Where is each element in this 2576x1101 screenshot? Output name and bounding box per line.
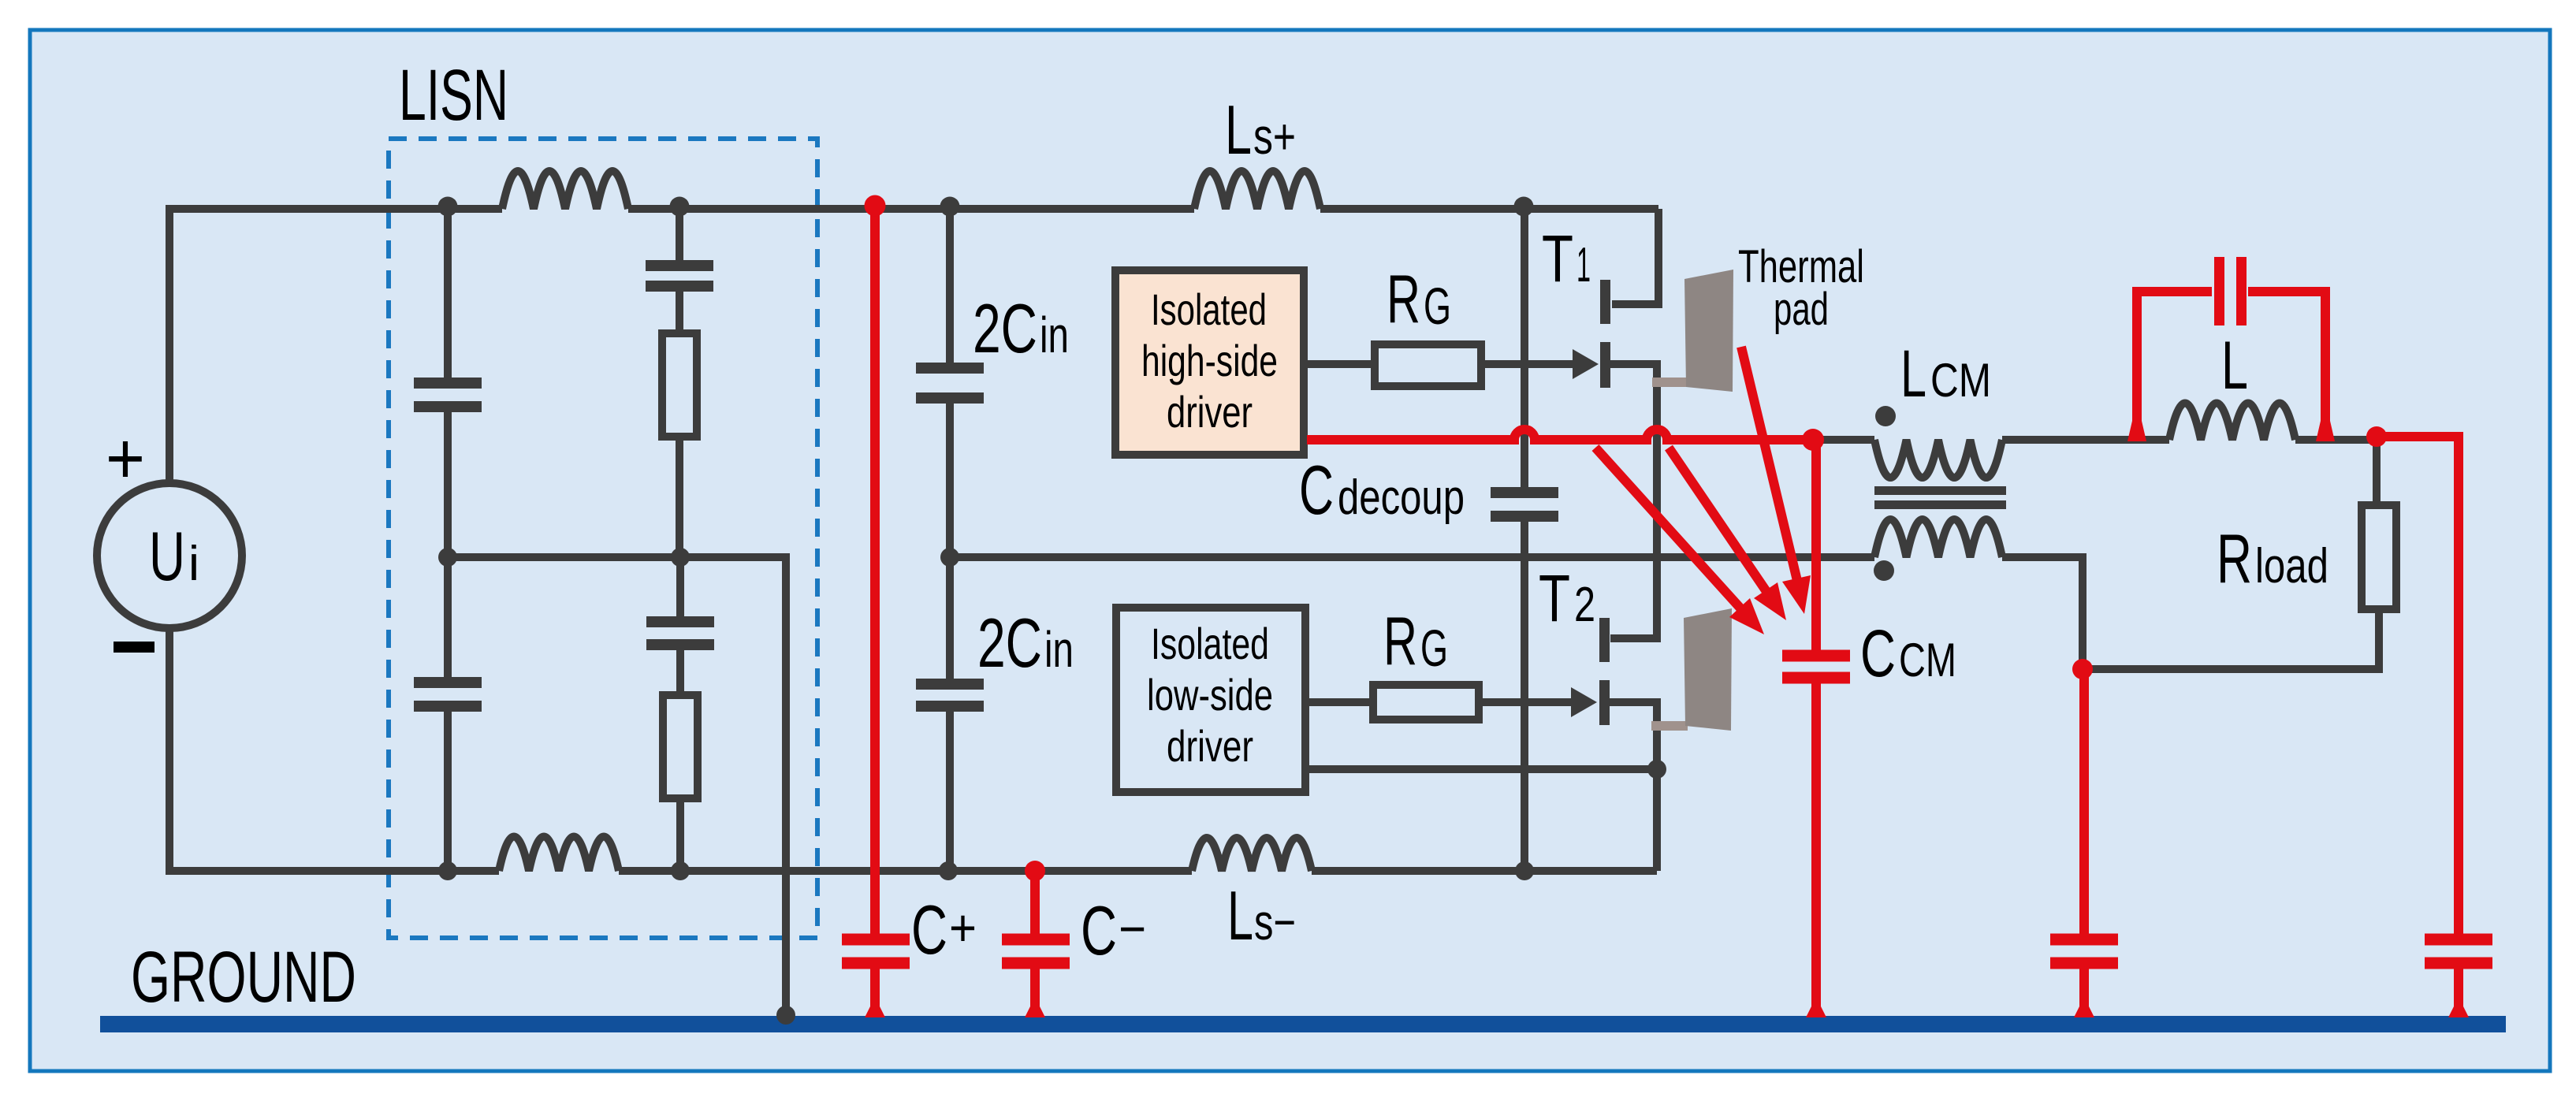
- svg-text:low-side: low-side: [1147, 670, 1273, 720]
- T2 gate arrow: [1571, 687, 1597, 717]
- red foot L left: [2127, 421, 2146, 441]
- resistor LISN upper-right: [662, 333, 697, 437]
- capacitor LISN upper-left: [414, 383, 482, 407]
- svg-text:high-side: high-side: [1141, 336, 1278, 385]
- resistor RG2: [1373, 685, 1479, 720]
- red capacitor across L: [2137, 292, 2212, 435]
- thermal pad 1: [1684, 270, 1733, 392]
- LCM phase dot lower: [1874, 560, 1894, 581]
- node T2 source: [1647, 760, 1666, 779]
- svg-text:C: C: [1860, 616, 1896, 690]
- svg-text:L: L: [1227, 876, 1253, 954]
- red arrow C: [1741, 347, 1798, 584]
- inductor L: [2169, 404, 2295, 441]
- wire: [676, 650, 684, 695]
- svg-text:s+: s+: [1253, 108, 1296, 165]
- svg-text:s−: s−: [1254, 894, 1296, 950]
- wire RG1 to T1 gate: [1481, 360, 1574, 368]
- svg-text:G: G: [1420, 619, 1448, 677]
- wire driver2 lower pin: [1309, 765, 1657, 773]
- svg-text:L: L: [1900, 337, 1926, 411]
- svg-text:R: R: [1383, 604, 1417, 679]
- red node C-: [1025, 861, 1045, 881]
- svg-text:driver: driver: [1167, 721, 1253, 771]
- T1 drain bar upper: [1600, 280, 1610, 324]
- red wire driver1 output with hops: [1307, 430, 1813, 440]
- capacitor LISN lower-left: [414, 683, 482, 706]
- T2 gate bar lower: [1599, 680, 1610, 725]
- T1 thermal stub: [1652, 378, 1688, 387]
- node LISN mid-right: [671, 548, 690, 567]
- node LISN bottom-right: [671, 861, 690, 880]
- LCM phase dot upper: [1875, 406, 1896, 426]
- red wire C+ to ground: [870, 969, 880, 1009]
- svg-text:i: i: [188, 537, 199, 591]
- svg-text:Isolated: Isolated: [1151, 285, 1267, 334]
- red foot C-: [1025, 1006, 1045, 1017]
- capacitor LISN upper-right: [646, 266, 713, 286]
- wire bottom rail right: [1312, 867, 1657, 875]
- wire LCM lower to node: [2002, 557, 2083, 669]
- 2Cin upper branch wire: [946, 209, 954, 363]
- minus label: [114, 642, 154, 653]
- wire after L: [2295, 440, 2377, 505]
- red wire C- branch: [1030, 871, 1040, 934]
- driver U2 low-side box: [1116, 608, 1305, 792]
- capacitor red middle: [2050, 939, 2118, 963]
- wire: [1521, 522, 1528, 871]
- capacitor LISN lower-right: [646, 622, 714, 645]
- wire top rail: [166, 205, 502, 213]
- wire Ui bottom: [166, 628, 173, 871]
- inductor Ls+: [1194, 171, 1320, 209]
- node LISN bottom-left: [438, 861, 457, 880]
- capacitor C-: [1002, 939, 1070, 963]
- svg-text:R: R: [2217, 519, 2252, 597]
- wire bottom rail middle: [619, 867, 1192, 875]
- red node load return: [2072, 659, 2093, 679]
- wire: [946, 712, 954, 871]
- svg-text:T: T: [1542, 221, 1573, 296]
- red foot L right: [2316, 421, 2335, 441]
- inductor LCM upper winding: [1874, 440, 2002, 478]
- svg-text:1: 1: [1576, 238, 1591, 292]
- inductor LISN bottom: [499, 837, 619, 872]
- LISN left branch lower wire: [444, 557, 452, 677]
- wire: [676, 292, 683, 333]
- node LISN mid-left: [438, 548, 457, 567]
- svg-text:+: +: [106, 418, 145, 499]
- svg-text:U: U: [149, 517, 185, 595]
- svg-text:in: in: [1040, 307, 1069, 363]
- wire top rail right: [1320, 205, 1658, 213]
- node 2Cin bottom: [939, 861, 958, 880]
- LISN left branch upper wire: [444, 209, 452, 378]
- wire bottom rail: [166, 867, 499, 875]
- svg-text:T: T: [1539, 561, 1570, 635]
- capacitor CCM: [1782, 656, 1850, 678]
- inductor LCM lower winding: [1874, 519, 2002, 557]
- ground bar: [100, 1016, 2506, 1032]
- svg-text:2C: 2C: [977, 604, 1042, 682]
- wire driver1 to RG1: [1308, 360, 1375, 368]
- red foot C+: [865, 1006, 885, 1017]
- LCM core bars: [1874, 486, 2006, 495]
- mid rail: [950, 553, 1874, 561]
- resistor RG1: [1375, 344, 1481, 386]
- red wire C- to ground: [1030, 969, 1040, 1009]
- wire: [676, 437, 683, 557]
- red foot right: [2448, 1006, 2469, 1017]
- LISN dashed box: [389, 139, 817, 938]
- LISN right branch lower wire: [676, 557, 684, 616]
- T2 source wire: [1610, 702, 1657, 871]
- wire top rail middle: [628, 205, 1194, 213]
- wire: [444, 412, 452, 557]
- T2 drain bar upper: [1599, 618, 1610, 662]
- svg-text:+: +: [949, 898, 977, 957]
- red wire load return to ground: [2079, 669, 2089, 934]
- capacitor 2Cin upper: [916, 368, 984, 398]
- inductor LISN top: [502, 171, 628, 209]
- node LISN top-right: [670, 197, 690, 217]
- T1 gate arrow: [1573, 349, 1599, 379]
- T2 thermal stub: [1651, 721, 1688, 731]
- wire: [676, 798, 684, 871]
- node Cdecoup top: [1514, 197, 1534, 217]
- wire: [946, 404, 954, 557]
- svg-text:G: G: [1424, 277, 1451, 335]
- svg-text:LISN: LISN: [399, 55, 508, 136]
- svg-text:C: C: [911, 891, 947, 969]
- resistor Rload: [2362, 505, 2396, 609]
- thermal pad 2: [1684, 608, 1732, 731]
- node 2Cin top: [940, 197, 960, 217]
- source Ui: [97, 483, 242, 628]
- wire Ui top: [166, 209, 173, 483]
- svg-text:pad: pad: [1774, 284, 1829, 335]
- wire RG2 to T2 gate: [1479, 698, 1573, 706]
- Cdecoup branch wire: [1521, 209, 1528, 487]
- node Cdecoup bottom: [1515, 861, 1534, 880]
- red node switch: [1802, 429, 1824, 451]
- LISN middle wire to ground: [448, 557, 786, 1021]
- red foot CCM: [1806, 1006, 1826, 1017]
- T1 gate bar lower: [1600, 342, 1610, 388]
- driver U1 high-side box: [1115, 270, 1304, 455]
- svg-text:C: C: [1299, 451, 1334, 529]
- svg-text:in: in: [1044, 621, 1074, 678]
- red wire CCM vertical: [1811, 440, 1821, 650]
- svg-text:−: −: [1119, 899, 1146, 958]
- wire output top black: [1813, 436, 1874, 444]
- node LISN top-left: [438, 197, 458, 217]
- svg-text:2: 2: [1574, 578, 1595, 632]
- node 2Cin mid: [940, 548, 959, 567]
- svg-text:L: L: [1225, 91, 1252, 169]
- red output to right: [2366, 426, 2387, 447]
- red wire CCM to ground: [1811, 683, 1821, 1009]
- resistor LISN lower-right: [663, 695, 698, 798]
- inductor Ls-: [1192, 838, 1312, 871]
- wire driver2 to RG2: [1309, 698, 1373, 706]
- T1 source wire: [1610, 364, 1657, 557]
- T1 drain wire: [1612, 209, 1658, 304]
- wire: [444, 712, 452, 871]
- svg-text:load: load: [2255, 539, 2328, 593]
- svg-text:C: C: [1081, 891, 1117, 969]
- red arrow B: [1669, 448, 1767, 593]
- red node C+ top: [865, 195, 886, 217]
- red arrow A: [1595, 448, 1742, 610]
- capacitor C+: [842, 939, 910, 963]
- node LISN ground: [776, 1006, 795, 1025]
- svg-text:CM: CM: [1899, 634, 1956, 686]
- LISN right branch upper wire: [676, 209, 683, 260]
- svg-text:L: L: [2221, 328, 2248, 404]
- wire Rload bottom: [2083, 609, 2379, 669]
- capacitor 2Cin lower: [916, 684, 984, 706]
- svg-text:driver: driver: [1167, 387, 1253, 437]
- capacitor red right: [2425, 939, 2492, 963]
- red wire C+ branch: [870, 209, 880, 934]
- svg-text:CM: CM: [1930, 354, 1991, 407]
- svg-text:decoup: decoup: [1338, 471, 1465, 525]
- svg-text:R: R: [1387, 262, 1420, 337]
- 2Cin lower branch wire: [946, 557, 954, 679]
- svg-text:2C: 2C: [973, 289, 1037, 367]
- svg-text:GROUND: GROUND: [131, 937, 356, 1017]
- wire output to L: [2002, 436, 2169, 444]
- T2 drain wire: [1610, 557, 1657, 638]
- capacitor Cdecoup: [1491, 493, 1558, 516]
- svg-text:Isolated: Isolated: [1151, 619, 1269, 668]
- red foot middle: [2074, 1006, 2094, 1017]
